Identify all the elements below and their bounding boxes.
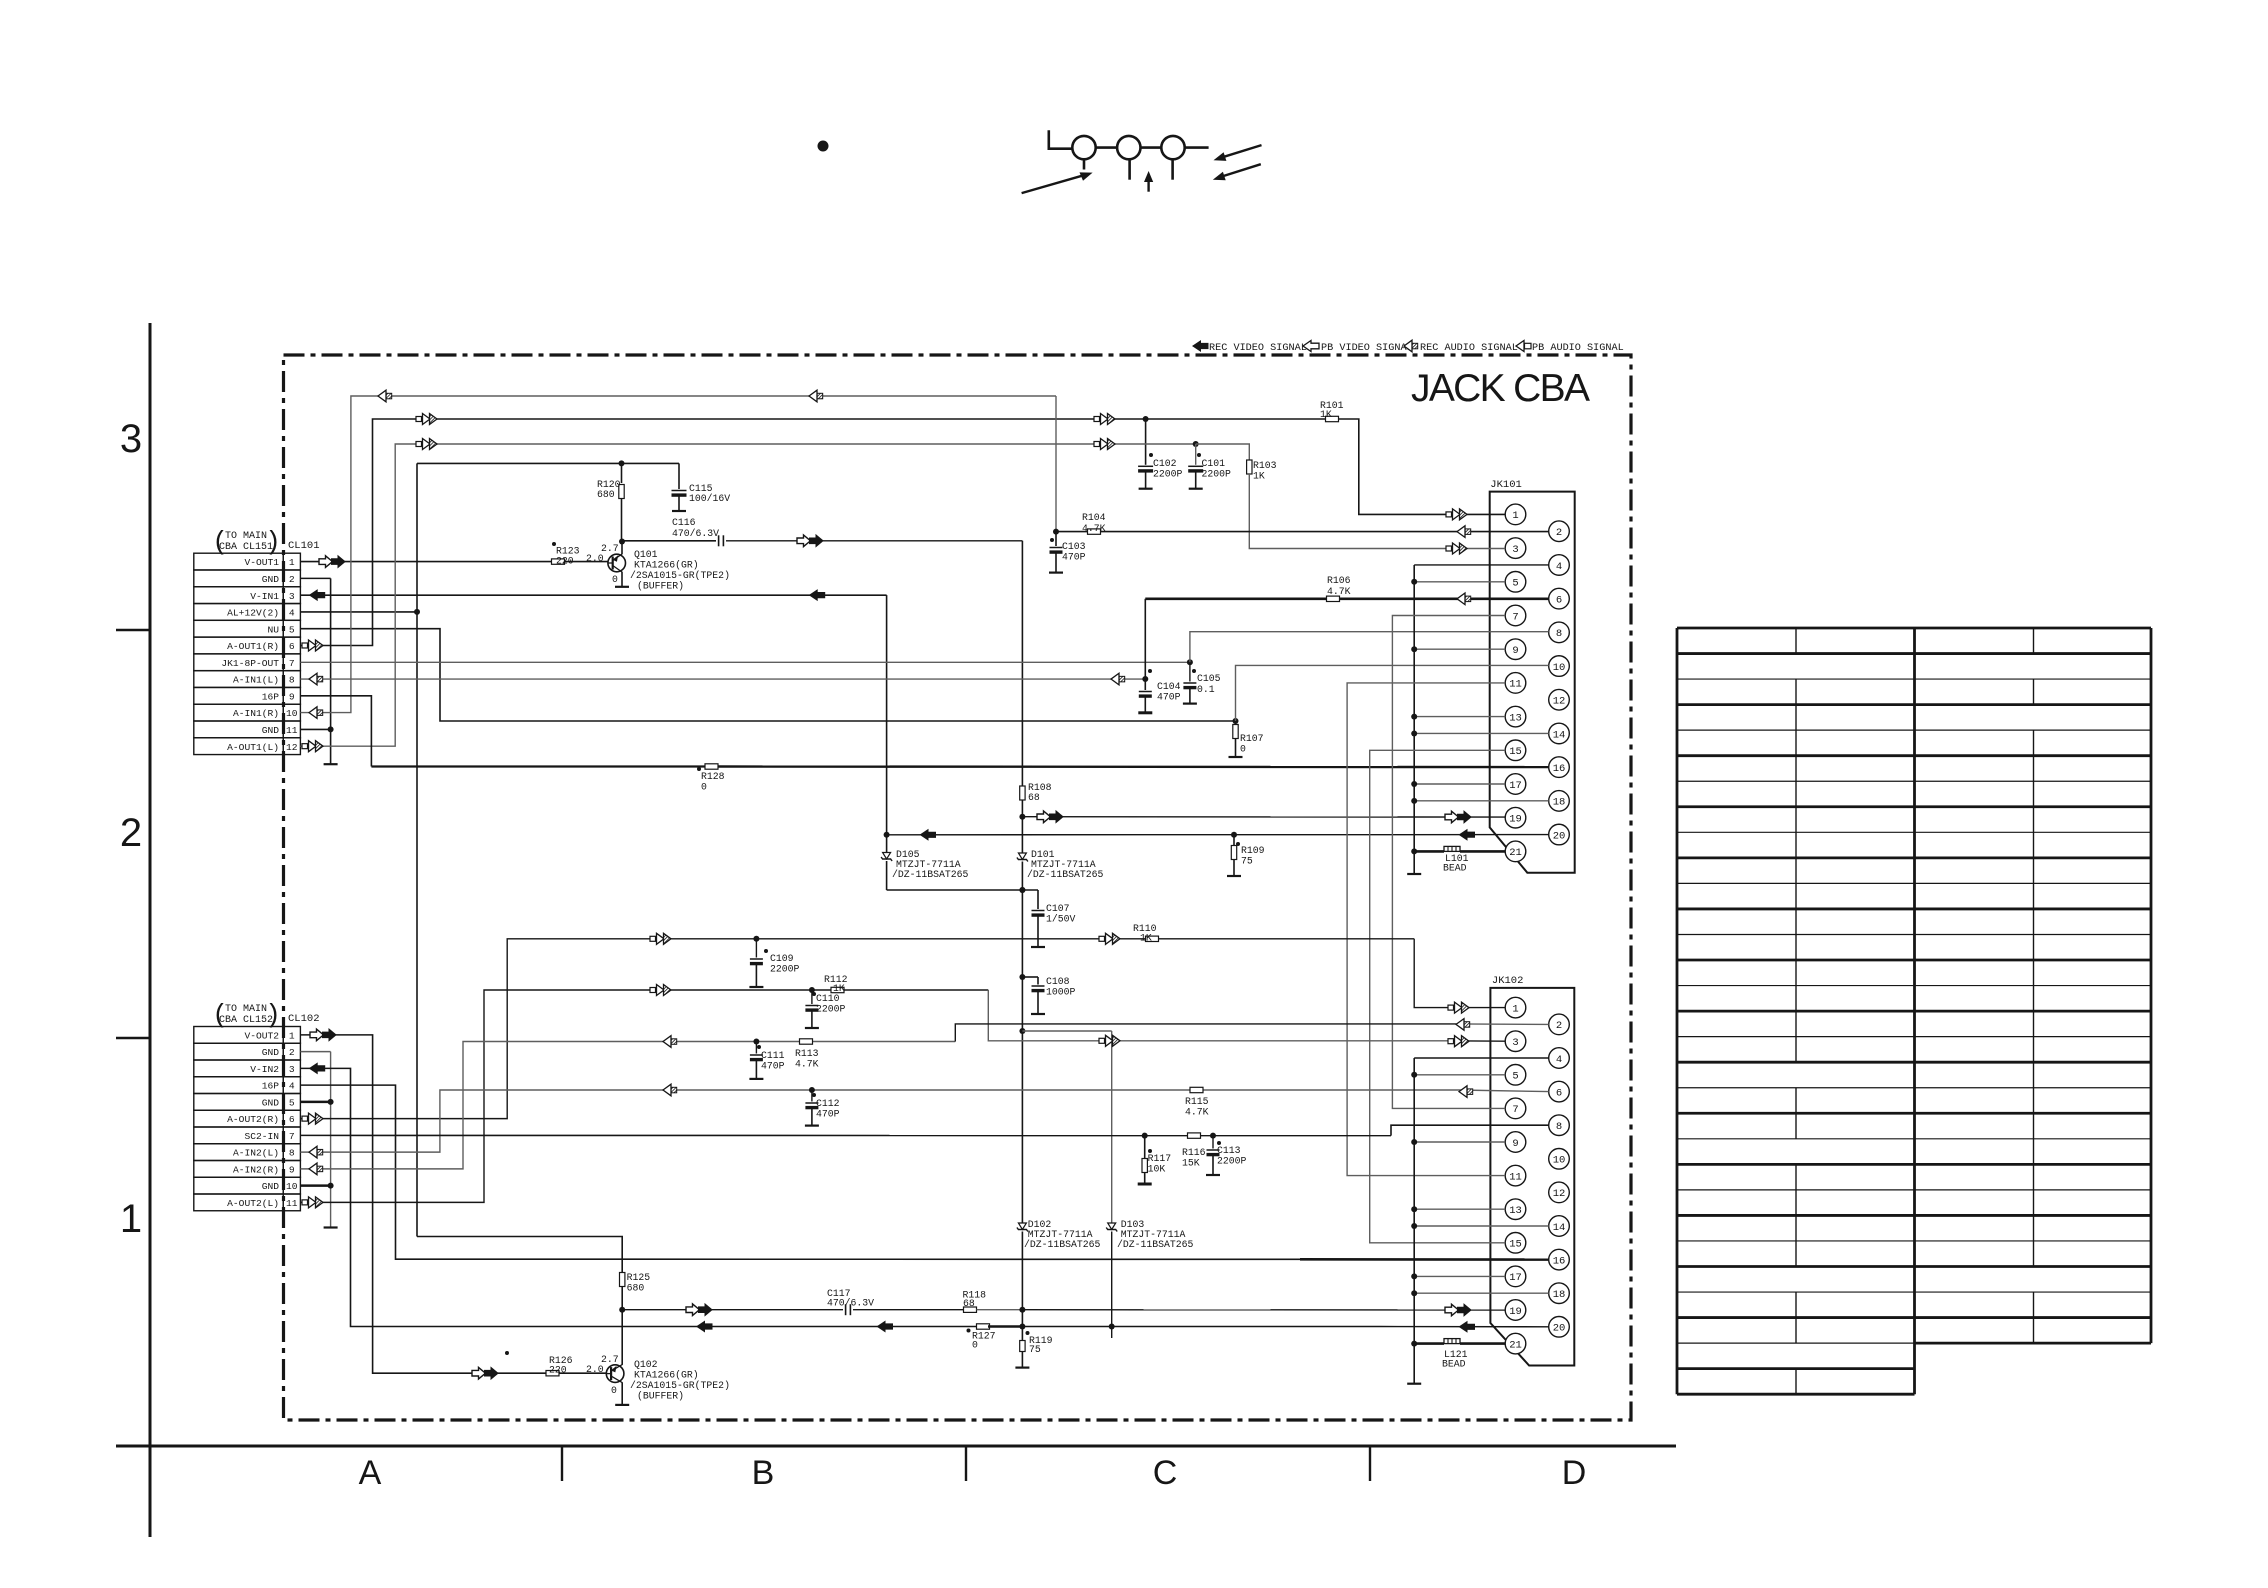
svg-text:75: 75 (1241, 856, 1253, 867)
svg-text:13: 13 (1509, 712, 1522, 724)
arrow rec-audio-in on C111 wire (663, 1036, 671, 1048)
arrow rec-video on C116 wire (797, 535, 811, 547)
wire JK101 pin18 gnd (1414, 800, 1549, 802)
svg-text:2: 2 (289, 574, 295, 585)
svg-text:JACK CBA: JACK CBA (1411, 367, 1594, 410)
svg-text:R125: R125 (627, 1272, 651, 1283)
tape path corner line (1049, 130, 1073, 148)
svg-text:8: 8 (1556, 628, 1562, 640)
wire1 down to R104 (1055, 396, 1057, 532)
svg-text:13: 13 (1509, 1205, 1522, 1217)
svg-text:0: 0 (701, 782, 707, 793)
wire A-OUT2(L) jog down to JK102 pin3 (988, 990, 1448, 1041)
arrow rec-audio-in at CL102 pin9 (309, 1163, 317, 1175)
JK101 pin 12 (1549, 689, 1570, 710)
svg-text:68: 68 (1028, 792, 1040, 803)
svg-text:1K: 1K (833, 983, 845, 994)
svg-text:BEAD: BEAD (1443, 863, 1467, 874)
resistor R115 (1190, 1087, 1203, 1092)
node C116 net crosses at 890 (1019, 887, 1025, 893)
arrow rec-audio mid pin3 run (1099, 1038, 1105, 1043)
diode D103 zener (1108, 1223, 1116, 1230)
transistor Q101 (608, 554, 626, 572)
roller 1 stem (1083, 159, 1086, 169)
svg-text:2: 2 (1556, 1020, 1562, 1032)
JK101 pin 10 (1549, 656, 1570, 677)
resistor R123 (552, 559, 565, 564)
JK101 pin 15 (1505, 740, 1526, 761)
capacitor C112 (811, 1090, 813, 1102)
wire SC2-IN pin7 (300, 1134, 1391, 1136)
svg-text:CL101: CL101 (288, 540, 320, 552)
svg-text:2: 2 (1556, 527, 1562, 539)
arrow rec-audio-in at CL101 pin8 (309, 673, 317, 685)
diagonal arrow lower-left (1022, 174, 1087, 193)
svg-text:(BUFFER): (BUFFER) (637, 1391, 684, 1402)
svg-text:680: 680 (597, 489, 615, 500)
node R117 top (1142, 1133, 1148, 1139)
capacitor C110 (811, 990, 813, 1004)
resistor R117 (1144, 1136, 1146, 1158)
wire A-OUT1(L) pin12 (300, 444, 1195, 746)
svg-text:C112: C112 (816, 1098, 840, 1109)
arrow rec-audio-in at CL101 pin10 (309, 707, 317, 719)
wire JK102 pin21 via L121 (1414, 1342, 1444, 1345)
svg-text:KTA1266(GR): KTA1266(GR) (634, 1370, 699, 1381)
JK101 pin 1 (1505, 504, 1526, 525)
jack JK101 outline (1490, 492, 1575, 873)
capacitor C111 (755, 1042, 757, 1054)
svg-text:470P: 470P (816, 1109, 840, 1120)
resistor R104 (1056, 531, 1088, 533)
capacitor C102 (1145, 419, 1147, 465)
svg-text:470P: 470P (1157, 692, 1181, 703)
svg-text:8: 8 (289, 1148, 295, 1159)
svg-text:0: 0 (1240, 744, 1246, 755)
svg-text:R115: R115 (1185, 1096, 1209, 1107)
wire A-IN2(R) pin9 (300, 1042, 955, 1169)
svg-text:KTA1266(GR): KTA1266(GR) (634, 560, 699, 571)
frame tick C/D (1369, 1446, 1371, 1481)
legend REC AUDIO SIGNAL arrow (1404, 340, 1412, 352)
inductor L101 bead (1444, 846, 1460, 851)
svg-text:9: 9 (289, 691, 295, 702)
arrow rec-video Q102 base (472, 1367, 486, 1379)
wire A-OUT1(R) pin6 (300, 419, 1145, 645)
svg-text:A-OUT1(R): A-OUT1(R) (227, 641, 279, 652)
wire R101 to JK101 pin1 (1339, 419, 1506, 514)
wire R103 to JK101 pin3 (1249, 474, 1505, 549)
schematic dash-dot border (284, 355, 1632, 1420)
svg-text:2200P: 2200P (1202, 469, 1232, 480)
svg-text:10: 10 (286, 708, 298, 719)
resistor R103 (1247, 460, 1252, 474)
svg-text:15: 15 (1509, 746, 1522, 758)
JK102 pin 5 (1505, 1065, 1526, 1086)
svg-text:R128: R128 (701, 771, 725, 782)
wire AL+12V to R125 (417, 1237, 622, 1273)
wire3 to R103 corner (1196, 444, 1250, 460)
wire R123 to Q101 base (565, 561, 609, 563)
diode D102 zener (1018, 1223, 1026, 1230)
svg-text:6: 6 (1556, 1087, 1562, 1099)
arrow pb-video mid V-IN1 (809, 589, 826, 601)
inductor L121 bead (1444, 1339, 1460, 1344)
svg-text:9: 9 (289, 1164, 295, 1175)
svg-text:R109: R109 (1241, 845, 1265, 856)
svg-text:6: 6 (1556, 594, 1562, 606)
svg-text:C: C (1153, 1454, 1178, 1492)
frame bottom line (116, 1445, 1676, 1448)
svg-text:6: 6 (289, 641, 295, 652)
resistor R127 (977, 1324, 990, 1329)
svg-text:12: 12 (1553, 1188, 1566, 1200)
arrow rec-audio-in wire1 corner (378, 390, 386, 402)
JK102 pin 16 (1549, 1249, 1570, 1270)
arrow rec-video at JK102 pin19 (1445, 1304, 1459, 1316)
JK102 pin 21 (1505, 1333, 1526, 1354)
svg-text:/2SA1015-GR(TPE2): /2SA1015-GR(TPE2) (630, 570, 730, 581)
arrow rec-audio on C110 wire (650, 988, 656, 993)
svg-text:C107: C107 (1046, 903, 1070, 914)
resistor R110 (1146, 936, 1159, 941)
JK102 pin 8 (1549, 1115, 1570, 1136)
arrow rec-audio at JK101 pin3 (1446, 546, 1452, 551)
svg-text:7: 7 (1512, 611, 1518, 623)
resistor R112 (831, 987, 844, 992)
svg-text:AL+12V(2): AL+12V(2) (227, 608, 279, 619)
JK102 pin 18 (1549, 1283, 1570, 1304)
svg-text:CL102: CL102 (288, 1013, 320, 1025)
wire JK102 pin13 gnd (1414, 1208, 1505, 1210)
svg-text:75: 75 (1029, 1344, 1041, 1355)
svg-text:4.7K: 4.7K (1185, 1107, 1209, 1118)
svg-text:16P: 16P (262, 691, 280, 702)
svg-text:R113: R113 (795, 1048, 819, 1059)
arrow rec-video mid pin19 (1037, 811, 1051, 823)
connector CL101 box (194, 553, 283, 570)
resistor R126 (546, 1371, 559, 1376)
svg-text:REC AUDIO SIGNAL: REC AUDIO SIGNAL (1420, 343, 1518, 354)
arrow rec-audio at JK101 pin1 (1446, 512, 1452, 517)
arrow rec-audio-in at JK101 pin6 (1457, 593, 1465, 605)
diagonal arrow right upper (1219, 145, 1262, 158)
svg-text:12: 12 (286, 742, 298, 753)
wire Q102 emitter up (621, 1310, 623, 1365)
wire AL+12V top run (417, 462, 679, 464)
node R107 top (1233, 718, 1239, 724)
svg-text:JK101: JK101 (1490, 479, 1522, 491)
wire JK102 pin14 gnd (1414, 1225, 1549, 1227)
node D102/D103 branch (1019, 1028, 1025, 1034)
svg-text:3: 3 (289, 1064, 295, 1075)
svg-text:4: 4 (1556, 561, 1562, 573)
svg-text:470/6.3V: 470/6.3V (827, 1298, 874, 1309)
svg-text:C116: C116 (672, 517, 696, 528)
node R108/pin19 junction (1019, 814, 1025, 820)
JK101 pin 4 (1549, 555, 1570, 576)
wire JK101 pin4 gnd (1414, 564, 1549, 566)
capacitor C104 (1144, 679, 1146, 690)
node C104 top (1142, 676, 1148, 682)
svg-text:1: 1 (1512, 1003, 1518, 1015)
svg-text:2200P: 2200P (770, 964, 800, 975)
svg-text:V-OUT2: V-OUT2 (244, 1030, 279, 1041)
svg-text:11: 11 (286, 1198, 298, 1209)
resistor R119 (1021, 1327, 1023, 1341)
svg-text:R103: R103 (1253, 460, 1277, 471)
JK101 pin 17 (1505, 774, 1526, 795)
capacitor C108 (1022, 976, 1038, 978)
svg-text:18: 18 (1553, 797, 1566, 809)
svg-text:2200P: 2200P (1153, 469, 1183, 480)
wire JK102 pin5 gnd (1414, 1074, 1505, 1076)
svg-text:5: 5 (1512, 578, 1518, 590)
svg-text:6: 6 (289, 1114, 295, 1125)
svg-text:0: 0 (611, 1385, 617, 1396)
svg-text:2: 2 (289, 1047, 295, 1058)
svg-text:5: 5 (289, 624, 295, 635)
wire JK101 pin13 gnd (1414, 716, 1505, 718)
wire buffer net down to R108 (1021, 541, 1023, 786)
svg-text:20: 20 (1553, 830, 1566, 842)
JK101 ground stub (1407, 873, 1421, 875)
svg-text:C104: C104 (1157, 681, 1181, 692)
wire JK101 pin15 riser to JK102 pin15 (1370, 750, 1506, 1243)
svg-text:R107: R107 (1240, 733, 1264, 744)
node C109 top (753, 936, 759, 942)
JK102 pin 4 (1549, 1048, 1570, 1069)
svg-text:/DZ-11BSAT265: /DZ-11BSAT265 (1117, 1239, 1194, 1250)
wire Q101 collector down (621, 572, 623, 587)
arrow rec-audio at JK102 pin1 (1448, 1005, 1454, 1010)
wire JK101 pin5 gnd (1414, 581, 1505, 583)
wire C117 to R118 (853, 1309, 964, 1311)
JK102 pin 9 (1505, 1132, 1526, 1153)
wire to JK101 pin19 (1022, 816, 1505, 818)
resistor R107 (1235, 721, 1237, 724)
JK102 pin 20 (1549, 1317, 1570, 1338)
JK101 pin 19 (1505, 807, 1526, 828)
svg-text:0.1: 0.1 (1197, 684, 1215, 695)
svg-text:PB VIDEO SIGNAL: PB VIDEO SIGNAL (1321, 343, 1413, 354)
guide roller 1 (1072, 136, 1095, 159)
wire C116 output to right (726, 540, 1022, 542)
arrow rec-audio at JK102 pin3 (1448, 1039, 1454, 1044)
svg-text:5: 5 (289, 1097, 295, 1108)
svg-text:1000P: 1000P (1046, 987, 1076, 998)
wire V-IN1 to JK101 pin20 (887, 834, 1549, 836)
svg-text:GND: GND (262, 1181, 280, 1192)
svg-text:4: 4 (1556, 1054, 1562, 1066)
svg-text:68: 68 (963, 1298, 975, 1309)
svg-text:NU: NU (267, 624, 279, 635)
svg-text:CBA CL151: CBA CL151 (219, 542, 273, 553)
legend PB AUDIO SIGNAL arrow (1516, 341, 1524, 352)
wire JK102 pin17 gnd (1414, 1275, 1505, 1277)
wire GND pin5 CL102 thick (300, 1101, 330, 1104)
wire GND pin11 CL101 (300, 728, 330, 730)
svg-text:16P: 16P (262, 1081, 280, 1092)
resistor R116 (1188, 1133, 1201, 1138)
wire V-IN2 to JK102 pin20 (1380, 1326, 1549, 1328)
svg-text:3: 3 (1512, 544, 1518, 556)
svg-text:470P: 470P (1062, 552, 1086, 563)
svg-text:A: A (359, 1454, 382, 1492)
wire A-IN1(R) pin10 (300, 396, 1056, 713)
svg-text:3: 3 (120, 417, 142, 461)
wire JK101 pin17 gnd (1414, 783, 1505, 785)
arrow rec-video V-OUT1 (319, 556, 333, 568)
arrow rec-audio-in at JK102 pin2 (1456, 1019, 1464, 1031)
resistor R113 (800, 1039, 813, 1044)
svg-text:JK102: JK102 (1492, 975, 1524, 987)
svg-text:1/50V: 1/50V (1046, 914, 1076, 925)
svg-text:19: 19 (1509, 814, 1522, 826)
JK101 pin 6 (1549, 588, 1570, 609)
arrow rec-audio on C109 wire (650, 936, 656, 941)
arrow rec-audio at CL101 pin12 (302, 744, 308, 749)
wire R126 to Q102 base (559, 1372, 606, 1374)
wire NU riser to JK101 pin10 (1236, 665, 1549, 721)
arrow rec-audio at CL102 pin11 (302, 1200, 308, 1205)
svg-text:8: 8 (1556, 1121, 1562, 1133)
svg-text:GND: GND (262, 1047, 280, 1058)
arrow rec-audio-in mid A-IN1(L) (1111, 673, 1119, 685)
jack JK102 outline (1490, 988, 1574, 1366)
svg-text:21: 21 (1509, 847, 1522, 859)
JK101 pin 14 (1549, 723, 1570, 744)
wire JK101 pin14 gnd (1414, 732, 1549, 734)
svg-text:10: 10 (1553, 662, 1566, 674)
node C110 top (809, 987, 815, 993)
svg-text:4: 4 (289, 608, 295, 619)
arrow rec-audio on wire3 (1094, 442, 1100, 447)
svg-text:C101: C101 (1202, 458, 1226, 469)
svg-text:C110: C110 (816, 993, 840, 1004)
svg-text:A-IN2(L): A-IN2(L) (233, 1148, 279, 1159)
tape path tail line (1185, 146, 1209, 149)
svg-text:C102: C102 (1153, 458, 1177, 469)
wire Q102 collector down (621, 1382, 623, 1405)
JK101 pin 2 (1549, 521, 1570, 542)
arrow rec-video at JK101 pin19 (1445, 811, 1459, 823)
wire D105 bottom to C107 (887, 889, 1038, 891)
arrow rec-audio-in at CL102 pin8 (309, 1146, 317, 1158)
guide roller 3 (1161, 136, 1184, 159)
svg-text:7: 7 (289, 1131, 295, 1142)
svg-text:11: 11 (286, 725, 298, 736)
guide roller 2 (1117, 136, 1140, 159)
svg-text:2.0: 2.0 (586, 1364, 604, 1375)
svg-text:1: 1 (289, 1030, 295, 1041)
node R120 top (619, 460, 625, 466)
JK102 pin 14 (1549, 1216, 1570, 1237)
svg-text:470P: 470P (761, 1061, 785, 1072)
resistor R125 (620, 1273, 625, 1287)
svg-text:/DZ-11BSAT265: /DZ-11BSAT265 (892, 869, 969, 880)
arrow pb-video mid V-IN2 b (877, 1321, 894, 1333)
svg-text:GND: GND (262, 725, 280, 736)
svg-text:5: 5 (1512, 1071, 1518, 1083)
svg-text:100/16V: 100/16V (689, 493, 730, 504)
svg-text:19: 19 (1509, 1306, 1522, 1318)
svg-text:2.7: 2.7 (601, 543, 619, 554)
wire NU pin5 (300, 629, 1235, 721)
wire R106 run thick (1145, 597, 1326, 600)
svg-text:9: 9 (1512, 1138, 1518, 1150)
svg-text:17: 17 (1509, 780, 1522, 792)
arrow pb-video mid pin20 run (920, 829, 937, 841)
JK101 pin 3 (1505, 538, 1526, 559)
arrow pb-video at JK102 pin20 (1459, 1321, 1476, 1333)
legend REC VIDEO SIGNAL arrow (1192, 340, 1209, 352)
svg-text:PB AUDIO SIGNAL: PB AUDIO SIGNAL (1532, 343, 1624, 354)
node C111 top (753, 1039, 759, 1045)
wire GND bus JK101 (1413, 565, 1415, 874)
up arrow (1147, 178, 1149, 192)
JK102 pin 1 (1505, 997, 1526, 1018)
svg-text:0: 0 (972, 1340, 978, 1351)
wire Q101 emitter up to node (621, 542, 623, 555)
JK102 ground stub (1407, 1383, 1421, 1385)
frame tick A/B (561, 1446, 563, 1481)
wire L101 to JK101 pin21 thick (1460, 850, 1505, 853)
diode D101 zener (1021, 817, 1023, 853)
svg-text:17: 17 (1509, 1272, 1522, 1284)
arrow rec-audio mid R110 (1099, 936, 1105, 941)
roller 2 stem (1128, 159, 1131, 179)
connector CL102 box (194, 1027, 283, 1044)
arrow pb-video at CL101 pin3 (309, 589, 326, 601)
svg-text:0: 0 (612, 574, 618, 585)
node C102 top (1143, 416, 1149, 422)
wire2 to R101 (1146, 418, 1327, 420)
arrow rec-audio at CL102 pin6 (302, 1116, 308, 1121)
arrow rec-audio-in at JK102 pin6 (1459, 1086, 1467, 1098)
wire JK102 pin4 gnd (1414, 1057, 1549, 1059)
resistor R128 (705, 764, 718, 769)
svg-text:SC2-IN: SC2-IN (244, 1131, 279, 1142)
svg-text:10K: 10K (1148, 1164, 1166, 1175)
roller 3 stem (1171, 159, 1174, 179)
wire A-IN1(L) pin8 (300, 678, 1145, 680)
wire buffer net down to D102 (1021, 977, 1023, 1223)
svg-text:A-OUT1(L): A-OUT1(L) (227, 742, 279, 753)
wire V-OUT2 pin1 (300, 1035, 546, 1373)
wire buffer net 890 to C108 node (1021, 890, 1023, 977)
parts table grid (1677, 627, 1915, 630)
svg-text:9: 9 (1512, 645, 1518, 657)
wire AL+12V vertical bus (416, 463, 418, 1236)
svg-text:15K: 15K (1182, 1158, 1200, 1169)
frame left border line (149, 323, 152, 1537)
transistor Q102 (606, 1365, 624, 1383)
arrow rec-audio-in on wire1 (809, 390, 817, 402)
svg-text:21: 21 (1509, 1339, 1522, 1351)
wire riser A-IN1(L) to R106 (1144, 599, 1146, 679)
svg-text:A-IN2(R): A-IN2(R) (233, 1164, 279, 1175)
svg-text:TO MAIN: TO MAIN (225, 531, 267, 542)
svg-text:BEAD: BEAD (1442, 1359, 1466, 1370)
wire JK101 pin21 via L101 (1414, 850, 1444, 853)
arrow rec-video on C117 wire (686, 1304, 700, 1316)
svg-text:11: 11 (1509, 1171, 1522, 1183)
svg-text:10: 10 (286, 1181, 298, 1192)
svg-text:/2SA1015-GR(TPE2): /2SA1015-GR(TPE2) (630, 1380, 730, 1391)
JK102 pin 19 (1505, 1300, 1526, 1321)
svg-text:Q101: Q101 (634, 549, 658, 560)
